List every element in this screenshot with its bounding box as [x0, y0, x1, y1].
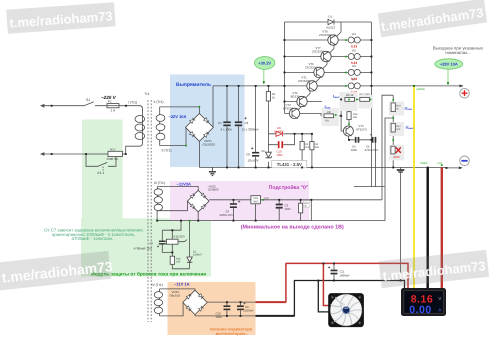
svg-text:+28V 10A: +28V 10A	[440, 62, 458, 67]
svg-text:100n: 100n	[351, 148, 358, 152]
svg-text:+30.2V: +30.2V	[258, 61, 271, 66]
diode D1 KD213	[327, 15, 336, 30]
emitter resistor R7	[348, 78, 360, 95]
svg-text:BD139: BD139	[291, 95, 300, 99]
wire: yellow voltage sense	[413, 86, 415, 288]
svg-text:2SC5200: 2SC5200	[312, 50, 324, 54]
svg-text:(Минимальное на выходе сделано: (Минимальное на выходе сделано 1В)	[241, 224, 344, 230]
wire: winding IV top to VDS3	[160, 289, 196, 291]
wire: relay coil branch	[172, 230, 187, 252]
svg-text:R5: R5	[352, 48, 356, 52]
svg-text:2SC5200: 2SC5200	[319, 33, 331, 37]
label VDS3	[170, 290, 181, 297]
svg-text:2200mF: 2200mF	[244, 309, 255, 313]
svg-text:Выпрямитель: Выпрямитель	[176, 82, 211, 88]
svg-text:~220 V: ~220 V	[101, 95, 117, 100]
ground bar of measuring column	[397, 170, 405, 172]
svg-text:KT817G: KT817G	[356, 128, 368, 132]
wire: +5V rail	[209, 199, 382, 201]
diode D2 1N4007	[187, 250, 203, 262]
wire: C10 row	[268, 134, 294, 145]
winding I (Tr1) primary	[135, 106, 145, 147]
wire: R9 trimmer row	[341, 98, 371, 100]
svg-text:100: 100	[327, 111, 332, 114]
svg-text:R9 1k: R9 1k	[346, 93, 354, 97]
svg-text:I (Tr1): I (Tr1)	[128, 101, 137, 105]
resistor R9	[345, 93, 355, 101]
wire: fan psu plus row	[207, 301, 255, 303]
svg-text:~11V 1A: ~11V 1A	[174, 281, 190, 286]
shaded panel measuring R12	[389, 122, 404, 136]
svg-text:KD213: KD213	[327, 26, 336, 30]
transistor VT8	[319, 30, 338, 46]
region: inrush protection highlight upper (green)	[82, 120, 123, 219]
transistor VT6	[305, 62, 324, 78]
wire: C2 branch	[238, 86, 240, 167]
svg-text:1k5: 1k5	[315, 146, 320, 149]
wire: trimmer wiper tap	[365, 101, 370, 106]
svg-text:C2: C2	[245, 121, 249, 125]
capacitor C10 (fan supply)	[216, 305, 231, 318]
resistor R2	[300, 142, 310, 150]
svg-text:3300 5w: 3300 5w	[107, 157, 119, 161]
wire: C6 branch	[232, 200, 234, 221]
wire: C7 branch	[162, 230, 172, 252]
svg-text:R6: R6	[352, 64, 356, 68]
minus output terminal	[460, 156, 470, 166]
resistor R13	[347, 112, 358, 120]
svg-text:Tr1: Tr1	[145, 92, 150, 96]
junction dots (black)	[51, 39, 448, 317]
svg-text:2 x 100n: 2 x 100n	[221, 128, 233, 132]
svg-text:7k5: 7k5	[305, 146, 310, 149]
svg-text:100: 100	[353, 116, 358, 119]
resistor R12	[391, 123, 401, 132]
watermark top-left	[6, 2, 115, 33]
transistor VT2	[291, 91, 308, 107]
wire: R3 branch	[311, 134, 313, 168]
svg-text:~11V3A: ~11V3A	[177, 182, 191, 187]
svg-text:1000mF: 1000mF	[340, 273, 351, 277]
bridge rectifier VDS2	[187, 190, 209, 212]
resistor R1	[266, 92, 276, 102]
wire: sense link B	[385, 118, 393, 221]
resistor R8	[324, 111, 334, 123]
wire: VT7 row	[284, 40, 371, 57]
wire: +30V rail	[213, 85, 463, 87]
svg-text:100n: 100n	[216, 315, 223, 319]
wire: R13 branch	[348, 101, 350, 126]
capacitor C8	[246, 147, 259, 163]
svg-text:K1(12V): K1(12V)	[174, 234, 185, 238]
transistor VT1	[298, 76, 317, 92]
svg-text:номиналах...: номиналах...	[445, 50, 471, 55]
wire: winding III bottom	[157, 202, 187, 221]
wire: measuring divider column	[392, 95, 394, 167]
fuse F1	[107, 100, 119, 113]
svg-text:220n: 220n	[285, 207, 292, 211]
wire: sense link A	[382, 95, 393, 200]
wire: VT8 row	[284, 22, 371, 40]
transistor VT4	[343, 124, 367, 136]
wire: zero-adjust bottom rail	[157, 220, 385, 222]
regulator VR1 7805	[251, 196, 261, 204]
region: indicator/fan supply highlight (orange)	[168, 282, 256, 335]
wire: winding IV bottom	[160, 303, 184, 316]
watermark top-right	[378, 0, 487, 37]
wire: C9 branch	[239, 302, 241, 316]
label D0	[274, 126, 284, 133]
svg-text:RFY-500: RFY-500	[360, 93, 371, 96]
relay coil K1	[167, 234, 185, 244]
transistor VT7	[312, 46, 331, 62]
wire: VT1 row	[307, 72, 348, 86]
svg-text:C1: C1	[218, 121, 222, 125]
wire: VT6 row	[284, 57, 371, 73]
svg-text:2SC5200: 2SC5200	[305, 65, 317, 69]
shaded panel measuring R10	[389, 102, 404, 116]
svg-text:VD: VD	[261, 149, 265, 153]
wire: measuring ground drop	[400, 167, 402, 280]
svg-text:1N4007: 1N4007	[193, 254, 203, 257]
wire: VT2 row	[284, 86, 322, 102]
emitter resistor R6	[348, 64, 360, 81]
wire: R1 / TL431 branch	[267, 86, 269, 167]
watermark mid-left	[0, 251, 114, 291]
svg-text:III (Tr1): III (Tr1)	[154, 181, 165, 185]
resistor R18	[170, 256, 181, 264]
capacitor C3	[276, 203, 291, 210]
wire: R8 to R9 link	[341, 99, 343, 131]
transistor VT3	[283, 103, 300, 119]
wire: thick red shunt lead	[441, 167, 443, 288]
wire: R16 branch	[300, 200, 302, 221]
capacitor C5	[365, 134, 379, 152]
wire: winding II top to bridge VDS1	[160, 107, 200, 114]
wire: winding II bottom to bridge VDS1 AC2	[160, 128, 186, 146]
arrow to minus terminal	[459, 167, 463, 170]
wire: fan red feed	[323, 263, 331, 305]
svg-text:470mF63V: 470mF63V	[365, 148, 379, 152]
wire: right output bus	[370, 22, 372, 187]
svg-text:GBU510: GBU510	[170, 294, 181, 298]
fan	[328, 293, 364, 327]
wire: C1 branch	[226, 86, 228, 167]
wire: top rail with D1	[284, 21, 371, 23]
shaded panel behind trimmer	[359, 95, 374, 109]
svg-text:51R: 51R	[176, 260, 181, 263]
wire: C11 branch	[333, 263, 335, 280]
wire: relay module feed	[162, 221, 181, 231]
svg-text:2SC5200: 2SC5200	[298, 79, 310, 83]
winding III (Tr1)	[154, 187, 162, 211]
wire: thick black shunt lead	[427, 167, 429, 288]
wire: fan psu minus row	[195, 314, 256, 316]
diode D0 1N4007	[276, 131, 282, 136]
svg-text:red: red	[438, 161, 443, 165]
wire: VR1 middle pin	[255, 204, 257, 221]
svg-text:D1: D1	[329, 15, 333, 19]
svg-text:C8: C8	[246, 152, 250, 156]
plus output terminal	[460, 88, 470, 98]
capacitor C4	[351, 137, 359, 152]
wire: C10f branch	[226, 302, 228, 316]
capacitor C2	[235, 117, 259, 132]
winding II (Tr1)	[156, 107, 165, 146]
wire: aux black output	[256, 281, 405, 317]
resistor R14 (removed, crossed)	[391, 146, 401, 159]
svg-text:100n: 100n	[277, 153, 284, 157]
wire: D2 branch	[189, 221, 191, 269]
wire: R18 branch	[172, 252, 189, 268]
wire: VT3 row	[284, 102, 321, 116]
svg-text:2200u 25V: 2200u 25V	[220, 213, 234, 217]
svg-text:II (Tr1): II (Tr1)	[154, 100, 164, 104]
svg-text:R8: R8	[325, 120, 329, 123]
wire: VT4 emitter row with C4 C5	[348, 136, 375, 187]
svg-text:TL431 - 2.8V: TL431 - 2.8V	[277, 162, 302, 167]
wire: C8 branch	[255, 86, 257, 167]
wire: 5V link down	[310, 200, 312, 221]
capacitor C10 (red)	[277, 141, 284, 157]
svg-text:black: black	[421, 161, 429, 165]
svg-text:S1: S1	[86, 98, 90, 102]
wire: VDS1 plus to +30V rail	[212, 86, 214, 127]
wire: C3 branch	[278, 200, 280, 221]
emitter resistor R5	[348, 48, 360, 65]
shaded panel behind R9	[340, 92, 358, 111]
shaded panel behind R8	[322, 108, 340, 126]
bridge rectifier VDS3	[183, 290, 207, 314]
transformer Tr1 core	[148, 100, 151, 322]
wire: mains line top	[41, 104, 140, 107]
trimmer RFY-500	[360, 93, 371, 101]
svg-text:K1.1: K1.1	[98, 171, 105, 175]
svg-text:GBJ5010: GBJ5010	[203, 142, 216, 146]
resistor R10	[391, 103, 401, 112]
ground symbol on negative rail	[209, 167, 216, 175]
note Выходное при указанных номиналах	[433, 45, 484, 55]
wire: VDS1 minus down	[198, 141, 200, 167]
panel voltmeter-ammeter	[401, 288, 446, 316]
svg-text:4700mkF 25V: 4700mkF 25V	[134, 246, 153, 250]
wire: lower link row	[354, 186, 385, 188]
label VDS2	[208, 184, 219, 191]
svg-text:yellow: yellow	[417, 87, 426, 91]
node +30.2V callout	[255, 57, 275, 85]
resistor R3	[310, 142, 320, 150]
region: rectifier highlight (blue)	[170, 75, 245, 168]
shaded panel measuring R14	[389, 145, 404, 160]
svg-text:12 x 3300mF: 12 x 3300mF	[242, 128, 260, 132]
region: zero-adjust highlight (pink)	[170, 181, 309, 221]
svg-text:0.00: 0.00	[409, 304, 431, 316]
relay contact K1.1 bypass wire	[86, 154, 116, 171]
junction pins (green)	[185, 39, 442, 221]
label TL431 - 2.8V	[272, 160, 307, 167]
svg-text:1N4007: 1N4007	[274, 129, 284, 133]
svg-text:420R: 420R	[393, 155, 400, 159]
svg-text:R7: R7	[352, 78, 356, 82]
wire: winding III top to VDS2	[157, 187, 198, 191]
resistor R17	[107, 147, 123, 161]
svg-text:вентиляторов...: вентиляторов...	[216, 331, 249, 336]
svg-text:7805: 7805	[253, 200, 259, 203]
svg-text:4700мкФ - 1сек/2сек.: 4700мкФ - 1сек/2сек.	[72, 236, 114, 241]
wire: VDS2 minus down	[197, 212, 199, 221]
shunt regulator VD TL431	[261, 149, 271, 158]
capacitor C9	[237, 302, 254, 313]
svg-text:F1: F1	[108, 100, 112, 104]
watermark mid-right	[379, 250, 489, 288]
svg-text:R17: R17	[110, 147, 116, 151]
svg-text:KT8536: KT8536	[283, 106, 294, 110]
wire: aux red output	[256, 263, 409, 302]
wire: R8 row	[321, 115, 341, 117]
region: inrush protection highlight lower (green)	[81, 218, 211, 276]
capacitor C6	[220, 201, 241, 217]
title питание индикатора вентиляторов	[210, 327, 253, 336]
svg-text:II (Tr1): II (Tr1)	[162, 149, 172, 153]
resistor R16	[299, 201, 310, 213]
capacitor C1	[218, 121, 232, 131]
wire: mains line bottom	[41, 146, 140, 155]
node +28V 10A callout	[435, 59, 463, 85]
label VDS1	[203, 139, 216, 147]
capacitor C7	[134, 241, 166, 251]
wire: D0 row	[268, 133, 312, 135]
wire: negative rail	[199, 166, 459, 169]
svg-text:~22V 10A: ~22V 10A	[169, 114, 187, 119]
svg-text:R4: R4	[352, 32, 356, 36]
emitter resistor R4	[348, 32, 360, 49]
capacitor C11	[328, 266, 350, 277]
winding IV (Tr1)	[154, 289, 162, 316]
wire: fan black feed	[318, 281, 331, 312]
svg-text:C7: C7	[150, 241, 154, 245]
bridge rectifier VDS1	[186, 114, 214, 142]
svg-text:Подстройка "0": Подстройка "0"	[269, 185, 309, 191]
svg-text:D2SB60: D2SB60	[208, 188, 219, 192]
switch S1	[84, 98, 94, 106]
svg-text:IV (Tr1): IV (Tr1)	[152, 283, 163, 287]
svg-text:10u 63V: 10u 63V	[248, 159, 259, 163]
wire: R2 branch	[301, 134, 303, 168]
arrow to plus terminal	[460, 85, 464, 88]
wire: left base bus	[283, 22, 285, 113]
